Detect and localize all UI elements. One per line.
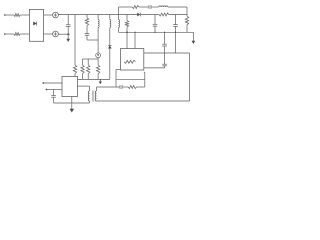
resistor R8 — [186, 7, 188, 16]
resistor R10 — [87, 59, 89, 65]
source V2 — [53, 31, 59, 37]
ground arrow — [67, 35, 69, 40]
ground arrow — [71, 103, 73, 109]
resistor R2 — [14, 33, 20, 36]
node junction — [126, 31, 128, 33]
wire primary return — [54, 102, 90, 104]
inductor L3 — [118, 7, 120, 20]
resistor R6 — [132, 6, 139, 9]
node IN2 terminal — [4, 33, 6, 35]
resistor R4 — [86, 15, 88, 18]
wire — [97, 28, 99, 53]
inductor L1 — [97, 15, 99, 20]
wire — [44, 33, 53, 35]
wire neutral — [58, 33, 70, 35]
resistor R13 (internal) — [124, 60, 136, 63]
source V1 — [53, 12, 59, 18]
wire — [78, 85, 90, 87]
capacitor C5 — [175, 15, 177, 25]
transformer T1 primary — [88, 91, 89, 101]
capacitor C3 — [148, 5, 150, 9]
resistor R5 — [126, 15, 128, 21]
capacitor C1 — [67, 15, 69, 25]
capacitor C4 — [154, 15, 156, 25]
wire top rail — [58, 14, 137, 16]
wire secondary return — [97, 100, 190, 102]
resistor R9 — [82, 59, 84, 65]
wire feedback net — [78, 78, 110, 80]
ground arrow — [99, 79, 101, 82]
capacitor C6 — [53, 90, 55, 96]
wire — [20, 14, 29, 16]
wire — [47, 89, 63, 91]
wire — [137, 86, 145, 88]
wire — [43, 82, 62, 84]
diode D3 (circled) — [96, 53, 101, 58]
inductor L2 — [109, 15, 111, 20]
wire — [74, 15, 76, 66]
diode D1 (inside bridge) — [33, 22, 36, 26]
wire — [87, 39, 98, 41]
resistor R7 — [159, 13, 169, 16]
resistor R3 — [73, 65, 76, 74]
wire — [109, 28, 111, 46]
capacitor C9 — [164, 53, 166, 64]
wire output — [144, 52, 190, 54]
wire — [97, 58, 99, 59]
resistor R1 — [14, 14, 20, 17]
wire — [168, 6, 187, 8]
wire — [144, 72, 146, 87]
capacitor C7 — [119, 85, 121, 89]
wire — [169, 14, 187, 16]
wire row1 — [119, 6, 133, 8]
wire — [109, 49, 111, 80]
node U1 pin dot — [42, 82, 44, 84]
diode D4 — [108, 45, 112, 48]
wire — [97, 86, 120, 88]
resistor R11 — [97, 59, 99, 65]
wire — [44, 14, 53, 16]
diode D2 — [137, 13, 140, 17]
capacitor C8 — [164, 32, 165, 33]
bridge rectifier B1 — [29, 9, 43, 41]
node IN1 terminal — [4, 14, 6, 16]
transformer T1 secondary — [95, 91, 96, 101]
node junction — [67, 33, 69, 35]
wire — [83, 58, 98, 60]
op-amp U2 (PWM block) — [121, 49, 144, 71]
transformer T1 core — [92, 91, 94, 102]
wire mid node — [119, 31, 194, 33]
resistor R12 — [128, 86, 137, 89]
ground arrow — [192, 32, 194, 41]
wire snubber top — [116, 78, 145, 80]
inductor L4 — [159, 6, 168, 7]
wire — [139, 6, 149, 8]
wire U2 top pins — [126, 32, 128, 48]
capacitor C2 — [86, 26, 88, 34]
wire — [144, 67, 165, 69]
wire U1 ground pin — [71, 97, 73, 104]
wire — [115, 70, 117, 80]
node U1 pin dot — [46, 89, 48, 91]
op-amp U1 (controller) — [62, 77, 78, 97]
wire — [20, 33, 29, 35]
